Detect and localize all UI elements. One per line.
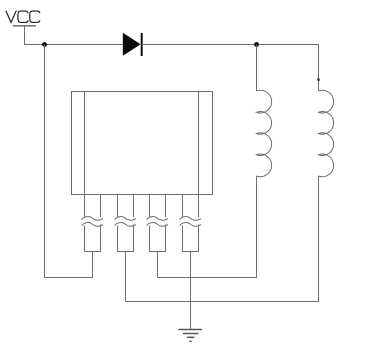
IC package inner right line [198,92,200,195]
pin 1 lower lead box [85,225,101,252]
wire primary top [256,45,258,92]
pin 3 break wave lower [147,223,169,227]
pin 3 lower lead box [150,225,166,252]
wire pin 3 stub [157,252,159,278]
VCC power bar [13,25,36,27]
wire L1 bottom [158,176,257,278]
wire secondary top [318,45,320,92]
pin 2 lower lead box [118,225,134,252]
junction dot A [42,42,47,47]
diode D1 [123,33,142,56]
pin 1 upper lead [85,195,101,218]
pin 1 break wave upper [82,217,104,221]
pin 3 break wave upper [147,217,169,221]
junction dot B [254,42,259,47]
pin 1 break wave lower [82,223,104,227]
wire top rail left [45,44,124,46]
pin 4 break wave lower [180,223,202,227]
wire top rail right [142,44,319,46]
wire VCC stem [25,26,45,45]
wire pin 1 to VCC rail [45,45,93,278]
pin 4 break wave upper [180,217,202,221]
pin 2 break wave upper [115,217,137,221]
wire pin 2 stub [125,252,127,302]
pin 2 break wave lower [115,223,137,227]
IC package inner left line [84,92,86,195]
inductor L2 secondary winding [319,90,334,176]
pin 4 upper lead [183,195,199,218]
inductor L1 primary winding [257,90,272,176]
IC package U1 body [72,92,213,195]
wire L2 bottom [126,176,319,302]
net label VCC (drawn as strokes) [6,11,40,23]
node mark on secondary wire [317,78,319,81]
pin 4 lower lead box [183,225,199,252]
wire pin 4 to ground [190,252,192,330]
pin 3 upper lead [150,195,166,218]
ground symbol [179,330,203,342]
pin 2 upper lead [118,195,134,218]
